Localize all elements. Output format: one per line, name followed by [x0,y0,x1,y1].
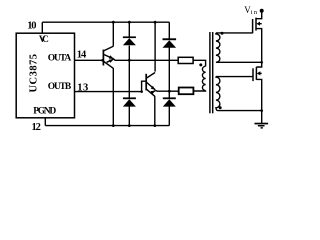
transformer T1 primary winding [202,66,205,90]
transformer T1 secondary winding lower [216,77,220,111]
resistor R1 [178,57,193,63]
wire diode column D1-D3 [128,22,130,37]
transistor Q2 npn emitter diagonal [147,82,156,90]
mosfet M2 channel bar [255,67,257,80]
mosfet M1 gate bar [252,19,254,33]
node dot bottom-D3 [128,124,131,127]
transistor Q1 pnp collector diagonal [104,62,114,69]
wire diode column D2-D4 [168,22,170,39]
node dot rail-D1 [128,21,131,24]
transistor Q2 pnp collector diagonal [147,89,155,96]
svg-text:10: 10 [27,20,36,31]
wire top rail [42,21,169,23]
op-amp U1 UC3875 controller box [16,33,74,118]
wire Q1 lower to bottom rail [112,68,114,126]
svg-text:12: 12 [32,122,41,133]
transistor Q1 base bar [102,50,104,66]
transistor Q2 emitter arrowhead [151,86,157,91]
svg-text:VC: VC [39,35,49,45]
wire Q1 collector to top rail [112,22,114,46]
wire R2 to transformer primary bottom [193,90,205,92]
transistor Q2 collector diagonal [147,73,156,79]
mosfet M1 body lead [259,23,261,25]
wire Q2 collector to top rail [154,22,156,71]
transistor Q1 pnp arrowhead [109,58,114,63]
svg-text:UC3875: UC3875 [28,54,39,92]
wire OUTA pin14 to Q1 base [75,59,103,61]
svg-text:OUTB: OUTB [48,82,72,92]
transistor Q2 pnp arrowhead [151,89,156,94]
ground symbol [255,123,269,125]
transistor Q1 pnp emitter diagonal [107,59,114,62]
polarity dot secondary lower [219,106,222,109]
mosfet M2 gate bar [252,68,254,81]
diode D4 [163,97,176,99]
transistor Q2 pnp emitter diagonal [150,91,155,94]
wire secondary upper bottom to switch node [217,61,262,63]
wire node A Q1 output to R1 [114,59,179,60]
diode D2 [163,38,177,40]
node dot Vin terminal [260,9,264,13]
wire secondary upper top to M1 gate [216,32,253,34]
transformer T1 core [209,32,211,113]
wire pin10 VC stub [41,22,43,33]
transistor Q1 collector diagonal [104,46,114,51]
wire secondary lower top to M2 gate [216,76,253,78]
diode D3 [123,97,136,99]
wire pin12 PGND stub [44,118,46,126]
transistor Q2 base bar [145,74,147,91]
svg-text:13: 13 [77,83,88,94]
transistor Q1 npn emitter diagonal [104,55,114,59]
node dot Q2 base [140,90,143,93]
resistor R2 [179,88,194,95]
mosfet M1 source lead [256,29,262,63]
svg-text:i: i [251,9,253,16]
wire bottom rail [45,125,169,127]
node dot ground node [260,109,263,112]
svg-text:OUTA: OUTA [48,54,72,64]
mosfet M2 source lead [256,79,261,123]
mosfet M2 drain lead [256,62,261,67]
mosfet M2 body lead [260,72,262,74]
node dot switch node [260,61,263,64]
wire R1 to transformer primary top [193,60,206,66]
transistor Q1 emitter arrowhead [109,55,114,60]
mosfet M1 drain lead [256,11,262,19]
wire OUTB pin13 to Q2 base jog [75,81,147,91]
wire secondary lower bottom to ground node [218,110,262,112]
transformer T1 secondary winding upper [216,33,220,62]
node dot rail-Q1 [112,21,115,24]
node dot D2-D4 output [168,90,171,93]
mosfet M2 body arrowhead [257,71,261,75]
polarity dot primary [199,63,202,66]
node dot bottom-Q1 [112,124,115,127]
svg-text:14: 14 [77,49,87,60]
node dot Q1 base [101,59,104,62]
wire Q2 lower to bottom rail [154,96,156,126]
mosfet M1 body arrowhead [256,22,260,26]
svg-text:n: n [254,9,258,16]
node dot rail-Q2 [154,21,157,24]
polarity dot secondary upper [221,32,224,35]
svg-text:PGND: PGND [33,107,56,117]
mosfet M1 channel bar [255,18,257,31]
node dot D1-D3 output [128,59,131,62]
wire node B Q2 output to R2 [155,89,178,92]
node dot bottom-Q2 [153,124,156,127]
diode D1 [123,36,136,38]
